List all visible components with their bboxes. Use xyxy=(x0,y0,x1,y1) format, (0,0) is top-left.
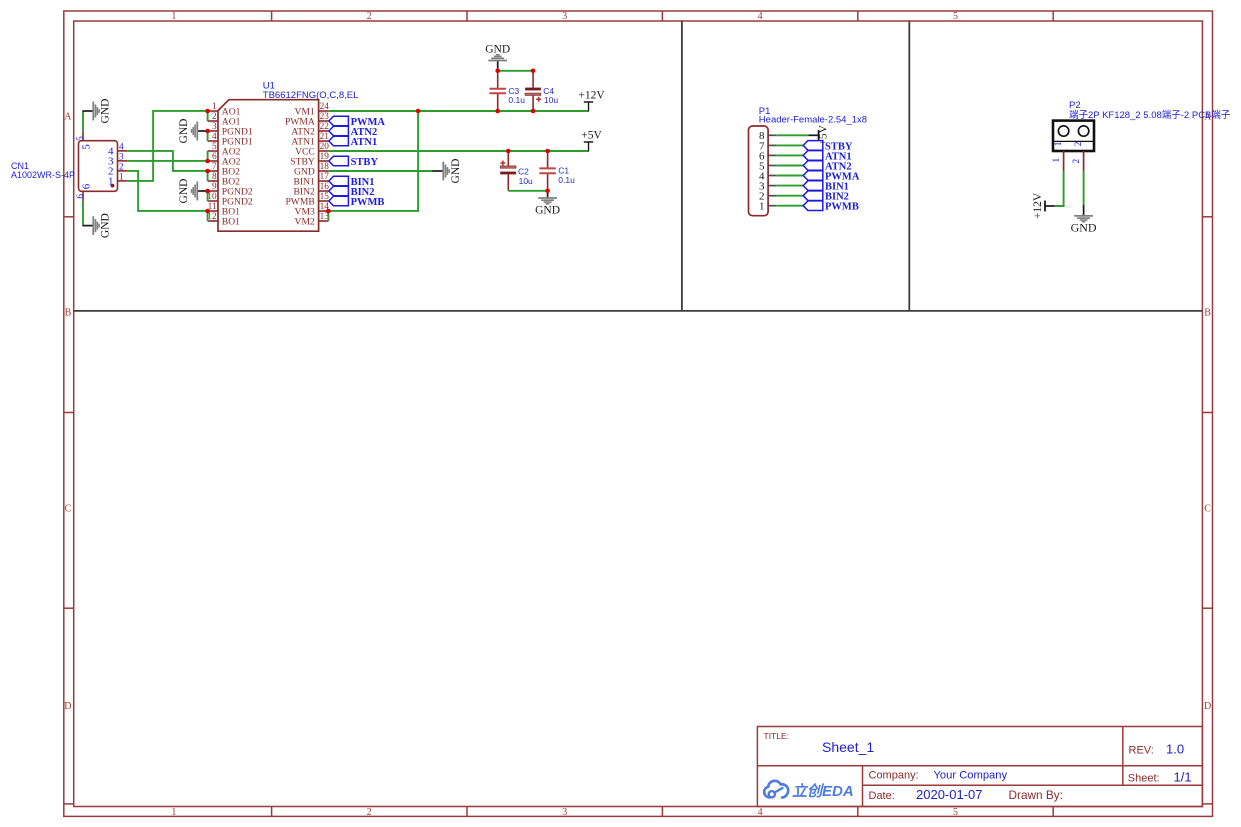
node junction at 207.6,191 xyxy=(205,189,210,194)
svg-text:5: 5 xyxy=(81,144,93,150)
svg-text:21: 21 xyxy=(320,132,330,142)
wire CN1.3 to U1.6 xyxy=(127,160,207,162)
ground GND at U1 pin3 PGND1 xyxy=(178,119,208,144)
node PWMB net flag at U1 xyxy=(329,196,385,208)
node +5V power flag xyxy=(581,129,602,151)
svg-text:2020-01-07: 2020-01-07 xyxy=(916,787,983,802)
node junction at 207.6,211 xyxy=(205,209,210,214)
svg-text:1: 1 xyxy=(119,172,124,182)
svg-text:GND: GND xyxy=(1071,220,1097,234)
node junction at 547.6,151 xyxy=(545,149,550,154)
svg-text:2: 2 xyxy=(367,11,372,22)
title block xyxy=(757,727,1202,807)
svg-text:24: 24 xyxy=(320,102,330,112)
svg-text:GND: GND xyxy=(450,159,462,184)
svg-text:6: 6 xyxy=(212,152,217,162)
ground GND at CN1 pin5 xyxy=(83,99,112,124)
svg-text:Your Company: Your Company xyxy=(934,769,1008,781)
wire: section divider vertical 1 xyxy=(681,21,683,311)
svg-text:6: 6 xyxy=(76,194,86,199)
node ATN1 net flag at P1 xyxy=(803,151,851,163)
node junction at 207.6,161 xyxy=(205,159,210,164)
node BIN1 net flag at P1 xyxy=(803,181,849,193)
svg-text:端子2P KF128_2 5.08端子-2 PCB端子: 端子2P KF128_2 5.08端子-2 PCB端子 xyxy=(1069,109,1231,121)
svg-text:17: 17 xyxy=(320,172,330,182)
svg-text:1: 1 xyxy=(171,807,176,818)
svg-text:4: 4 xyxy=(119,142,124,152)
wire CN1.1 to U1.1 xyxy=(127,111,207,181)
svg-text:7: 7 xyxy=(212,162,217,172)
svg-text:Company:: Company: xyxy=(869,769,919,781)
svg-text:Header-Female-2.54_1x8: Header-Female-2.54_1x8 xyxy=(759,114,867,125)
node junction at 533.1,111 xyxy=(531,109,536,114)
wire P1.8 to +5V xyxy=(776,134,808,136)
svg-text:GND: GND xyxy=(178,119,190,144)
svg-text:C: C xyxy=(1204,504,1211,515)
wire U1 pin pair link 1-2 xyxy=(207,111,209,121)
wire +12V rail U1.24 VM1 xyxy=(328,110,588,112)
svg-text:2: 2 xyxy=(119,162,124,172)
svg-text:8: 8 xyxy=(212,172,217,182)
op-amp U1 TB6612FNG(O,C,8,EL xyxy=(207,80,358,231)
svg-text:19: 19 xyxy=(320,152,330,162)
svg-text:VM2: VM2 xyxy=(295,216,315,227)
node junction at 207.6,131 xyxy=(205,129,210,134)
svg-text:GND: GND xyxy=(535,204,560,216)
svg-text:2: 2 xyxy=(1072,159,1082,164)
svg-text:16: 16 xyxy=(320,182,330,192)
wire: section divider vertical 2 xyxy=(908,21,910,311)
svg-text:A: A xyxy=(64,111,72,122)
svg-text:4: 4 xyxy=(758,11,763,22)
node +12V power flag xyxy=(578,89,605,111)
svg-text:A1002WR-S-4P: A1002WR-S-4P xyxy=(11,170,75,180)
svg-text:12: 12 xyxy=(207,212,217,222)
svg-text:5: 5 xyxy=(953,807,958,818)
connector P2 KF128 terminal xyxy=(1052,100,1231,171)
ground GND at CN1 pin6 xyxy=(83,213,112,238)
svg-text:B: B xyxy=(65,307,72,318)
svg-text:+5V: +5V xyxy=(581,129,602,141)
svg-text:Sheet_1: Sheet_1 xyxy=(822,739,874,755)
svg-text:1: 1 xyxy=(759,201,765,213)
wire U1 pin pair link 5-6 xyxy=(207,151,209,161)
node ATN2 net flag at U1 xyxy=(329,126,377,138)
wire U1.18 GND xyxy=(328,170,433,172)
svg-text:PWMB: PWMB xyxy=(351,197,385,208)
ground GND at U1 pin9 PGND2 xyxy=(178,179,208,204)
svg-text:GND: GND xyxy=(99,99,111,124)
svg-text:D: D xyxy=(64,701,71,712)
wire CN1.4 to U1.7 xyxy=(127,151,207,171)
svg-text:0.1u: 0.1u xyxy=(508,95,525,105)
node junction at 497.7,111 xyxy=(495,109,500,114)
wire C3-C4 top link xyxy=(498,70,533,72)
node junction at 547.6,190.8 xyxy=(545,189,550,194)
svg-text:C: C xyxy=(65,504,72,515)
svg-text:PWMB: PWMB xyxy=(825,202,859,213)
svg-text:9: 9 xyxy=(212,182,217,192)
svg-text:15: 15 xyxy=(320,192,330,202)
svg-text:1: 1 xyxy=(212,102,217,112)
node STBY net flag at P1 xyxy=(803,141,853,153)
svg-text:TITLE:: TITLE: xyxy=(764,731,790,741)
ground GND above C3 xyxy=(485,44,510,72)
node junction at 497.7,70.8 xyxy=(495,69,500,74)
wire U1 pin pair link 11-12 xyxy=(207,211,209,221)
svg-text:1.0: 1.0 xyxy=(1166,741,1184,756)
wire P2.1 to +12V xyxy=(1055,171,1064,206)
node junction at 207.6,171 xyxy=(205,169,210,174)
node PWMB net flag at P1 xyxy=(803,201,859,213)
connector P1 Header-Female-2.54_1x8 xyxy=(749,106,868,216)
svg-text:B: B xyxy=(1204,307,1211,318)
svg-text:5: 5 xyxy=(953,11,958,22)
node junction at 418.1,111 xyxy=(416,109,421,114)
svg-text:20: 20 xyxy=(320,142,330,152)
ground GND at P2.2 xyxy=(1071,205,1097,234)
svg-text:立创EDA: 立创EDA xyxy=(792,782,854,800)
svg-text:23: 23 xyxy=(320,112,330,122)
svg-text:1: 1 xyxy=(171,11,176,22)
svg-text:10u: 10u xyxy=(544,95,558,105)
wire CN1.5 to GND xyxy=(82,111,84,131)
wire P1.5 to ATN2 xyxy=(776,165,803,167)
svg-text:3: 3 xyxy=(212,122,217,132)
wire U1 VM3-VM2 link xyxy=(327,211,329,221)
node +12V power flag at P2 xyxy=(1032,192,1055,219)
wire P2.2 to GND xyxy=(1083,171,1085,206)
svg-text:GND: GND xyxy=(178,179,190,204)
wire P1.2 to BIN2 xyxy=(776,195,803,197)
svg-text:STBY: STBY xyxy=(351,157,379,168)
svg-text:10: 10 xyxy=(207,192,217,202)
wire U1 pin pair link 9-10 xyxy=(207,191,209,201)
wire P1.1 to PWMB xyxy=(776,205,803,207)
connector CN1 A1002WR-S-4P xyxy=(11,131,127,201)
svg-text:6: 6 xyxy=(81,183,93,189)
svg-text:2: 2 xyxy=(212,112,217,122)
svg-text:3: 3 xyxy=(562,807,567,818)
capacitor C3 0.1u xyxy=(490,71,526,111)
node PWMA net flag at U1 xyxy=(329,116,386,128)
node ATN2 net flag at P1 xyxy=(803,161,851,173)
node BIN2 net flag at U1 xyxy=(329,186,375,198)
wire P1.7 to STBY xyxy=(776,144,803,146)
node ATN1 net flag at U1 xyxy=(329,136,377,148)
node BIN2 net flag at P1 xyxy=(803,191,849,203)
svg-text:TB6612FNG(O,C,8,EL: TB6612FNG(O,C,8,EL xyxy=(263,90,359,101)
EasyEDA logo xyxy=(764,781,853,800)
node junction at 533.1,70.8 xyxy=(531,69,536,74)
svg-text:5: 5 xyxy=(76,136,86,141)
svg-text:+12V: +12V xyxy=(578,89,605,101)
svg-text:0.1u: 0.1u xyxy=(558,175,575,185)
wire +5V rail U1.20 VCC xyxy=(328,150,588,152)
wire P1.6 to ATN1 xyxy=(776,154,803,156)
wire VM1 branch to VM3 xyxy=(328,111,418,211)
svg-text:2: 2 xyxy=(1074,141,1084,146)
svg-text:1/1: 1/1 xyxy=(1174,769,1192,784)
svg-text:22: 22 xyxy=(320,122,330,132)
svg-text:REV:: REV: xyxy=(1129,744,1154,756)
svg-text:1: 1 xyxy=(1054,141,1064,146)
svg-text:3: 3 xyxy=(119,152,124,162)
node BIN1 net flag at U1 xyxy=(329,176,375,188)
svg-text:1: 1 xyxy=(1052,158,1062,163)
node PWMA net flag at P1 xyxy=(803,171,860,183)
node +5V power flag at P1.8 xyxy=(809,124,830,145)
wire CN1.6 to GND xyxy=(82,201,84,226)
node junction at 328.4,211 xyxy=(326,209,331,214)
svg-text:Sheet:: Sheet: xyxy=(1128,772,1160,784)
svg-text:+12V: +12V xyxy=(1032,192,1044,219)
svg-text:GND: GND xyxy=(485,44,510,56)
node STBY net flag at U1 xyxy=(329,156,379,168)
svg-text:4: 4 xyxy=(758,807,763,818)
svg-text:18: 18 xyxy=(320,162,330,172)
svg-text:4: 4 xyxy=(212,132,217,142)
node junction at 207.6,111 xyxy=(205,109,210,114)
svg-text:5: 5 xyxy=(212,142,217,152)
wire C2-C1 bottom link xyxy=(508,190,547,192)
capacitor C4 10u xyxy=(525,71,558,111)
wire CN1.2 to U1.11 xyxy=(127,171,207,211)
svg-text:D: D xyxy=(1204,701,1211,712)
svg-text:BO1: BO1 xyxy=(222,216,240,227)
capacitor C2 10u xyxy=(500,151,533,191)
svg-text:2: 2 xyxy=(367,807,372,818)
svg-text:Date:: Date: xyxy=(869,790,895,802)
wire: section divider horizontal xyxy=(74,310,1203,312)
wire P1.3 to BIN1 xyxy=(776,185,803,187)
svg-text:3: 3 xyxy=(562,11,567,22)
svg-text:Drawn By:: Drawn By: xyxy=(1009,788,1063,802)
capacitor C1 0.1u xyxy=(539,151,575,191)
ground GND at U1 pin18 xyxy=(433,159,462,184)
ground GND below C1 xyxy=(535,191,560,217)
wire P1.4 to PWMA xyxy=(776,175,803,177)
wire U1 pin pair link 3-4 xyxy=(207,131,209,141)
svg-text:10u: 10u xyxy=(519,176,533,186)
svg-text:GND: GND xyxy=(99,213,111,238)
node junction at 508.3,151 xyxy=(506,149,511,154)
wire U1 pin pair link 7-8 xyxy=(207,171,209,181)
svg-text:ATN1: ATN1 xyxy=(351,137,378,148)
